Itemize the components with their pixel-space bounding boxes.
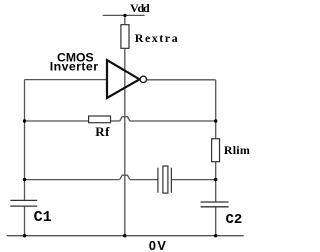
crystal X1 left plate — [157, 168, 159, 193]
junction 0V rail left — [23, 234, 26, 237]
junction Rf wire right — [214, 119, 217, 122]
svg-text:0V: 0V — [149, 238, 167, 252]
svg-text:C1: C1 — [34, 209, 52, 226]
ground rail 0V — [7, 235, 244, 237]
wire inverter input — [25, 79, 108, 81]
capacitor C2 bottom plate — [201, 206, 229, 208]
junction Rf wire left — [23, 119, 26, 122]
svg-text:Vdd: Vdd — [130, 1, 150, 15]
junction at Vdd rail — [123, 14, 126, 17]
wire hop to crystal — [130, 179, 158, 181]
capacitor C1 top plate — [10, 199, 37, 201]
wire hop over supply line (crystal wire) — [120, 175, 130, 179]
resistor Rextra — [121, 25, 129, 49]
svg-text:C2: C2 — [226, 212, 243, 228]
wire left bus upper — [24, 80, 26, 201]
junction 0V rail right — [214, 234, 217, 237]
wire right bus upper — [215, 80, 217, 139]
inverter output bubble — [140, 76, 146, 82]
junction crystal wire left — [23, 178, 26, 181]
crystal X1 body — [163, 166, 168, 193]
wire inverter output — [147, 79, 216, 81]
resistor Rf — [89, 116, 111, 123]
svg-text:Inverter: Inverter — [50, 59, 99, 73]
wire left bus lower — [24, 206, 26, 236]
wire hop to right bus (Rf wire) — [130, 120, 216, 122]
inverter U1 triangle — [107, 60, 140, 98]
power rail Vdd — [103, 14, 145, 16]
wire hop over supply line (Rf wire) — [120, 117, 130, 121]
svg-text:Rlim: Rlim — [224, 143, 250, 157]
wire Vdd rail to Rextra — [124, 15, 126, 24]
wire right bus middle — [215, 162, 217, 202]
wire Rf to hop — [111, 120, 120, 122]
wire crystal to right bus — [171, 179, 215, 181]
wire left bus to Rf — [25, 120, 89, 122]
capacitor C1 bottom plate — [10, 205, 37, 207]
junction crystal wire right — [214, 178, 217, 181]
svg-text:Rextra: Rextra — [135, 31, 179, 45]
wire right bus lower — [215, 207, 217, 236]
resistor Rlim — [212, 139, 220, 162]
wire left bus to crystal hop — [25, 179, 120, 181]
junction 0V rail center — [123, 234, 126, 237]
wire supply line Rextra to 0V rail through inverter — [124, 48, 126, 235]
crystal X1 right plate — [170, 168, 172, 193]
svg-text:Rf: Rf — [95, 124, 110, 139]
capacitor C2 top plate — [201, 201, 229, 203]
